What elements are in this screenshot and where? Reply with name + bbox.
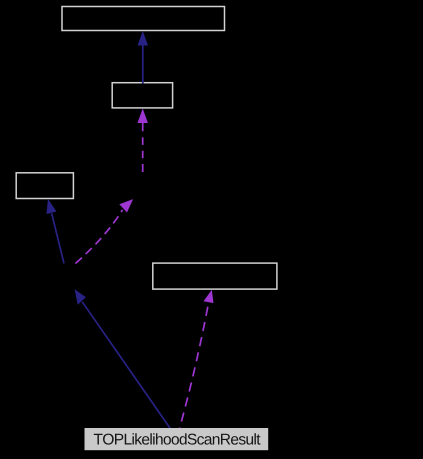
- usage arrow shaft: dashed purple up to second box: [142, 122, 144, 172]
- inheritance arrow shaft: invisible node to left box (solid blue): [52, 214, 64, 264]
- class box RelationsInterface (top, label invisible): [62, 7, 225, 31]
- inheritance arrowhead at left box bottom: [46, 199, 56, 214]
- usage arrow shaft: dashed purple diagonal from invisible node up-right: [75, 210, 122, 264]
- usage arrowhead at second box bottom: [137, 109, 148, 124]
- inheritance arrow shaft: second box to top box (solid blue): [142, 45, 144, 84]
- inheritance arrowhead at invisible node: [75, 289, 86, 305]
- inheritance arrow shaft: TOPLikelihoodScanResult to invisible node (solid blue): [82, 302, 170, 429]
- class box TOPLikelihoodScanResult (current, filled grey): [85, 428, 269, 450]
- usage arrowhead diagonal: [119, 199, 133, 212]
- usage arrow shaft: dashed purple from TOPLikelihoodScanResult to middle right box: [180, 303, 209, 429]
- usage arrowhead at middle right box bottom: [204, 290, 214, 303]
- label TOPLikelihoodScanResult: [94, 433, 261, 444]
- inheritance arrowhead at top box: [138, 31, 149, 46]
- class box TObject (second, label invisible): [112, 83, 172, 108]
- class box left (label invisible): [16, 173, 73, 199]
- class box DataStore::StoreEntry (middle right, label invisible): [153, 263, 277, 289]
